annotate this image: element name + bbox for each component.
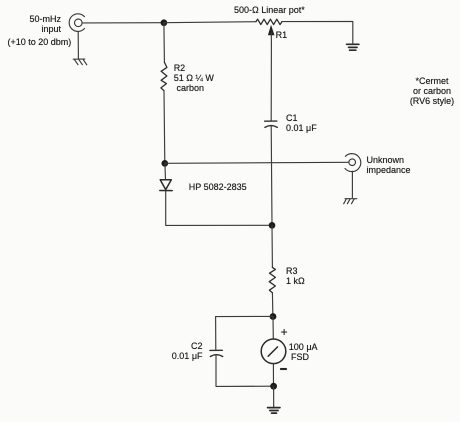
- label: R3 value: [286, 266, 305, 286]
- wire meter to node E: [272, 364, 274, 387]
- R1 wiper arrow: [268, 25, 275, 45]
- capacitor C1 (0.01 uF): [265, 121, 278, 127]
- wire C2 bottom to node E: [216, 355, 274, 386]
- capacitor C2 (0.01 uF): [210, 350, 223, 356]
- resistor R2 (51 ohm) zigzag: [161, 62, 167, 90]
- wire node B down to diode D1: [164, 163, 167, 179]
- label: HP 5082-2835: [189, 182, 247, 192]
- node A junction: [161, 19, 168, 26]
- wire node D to meter M1: [272, 316, 274, 339]
- label: (+10 to 20 dbm): [8, 37, 72, 47]
- resistor R3 (1 k) zigzag: [269, 267, 275, 292]
- ground earth (meter): [268, 408, 280, 414]
- node B junction: [161, 160, 168, 167]
- wire node B to J2 (unknown impedance line): [165, 162, 349, 163]
- wire C1 to node C: [270, 126, 273, 226]
- ground earth (R1 right): [347, 44, 359, 50]
- node E junction: [270, 383, 277, 390]
- wire R3 to node D: [271, 293, 274, 317]
- wire R1 right to corner: [282, 21, 353, 43]
- connector J1 (50-MHz input BNC jack): [69, 14, 84, 32]
- wire J2 shield to ground: [351, 171, 353, 197]
- wire J1 shield to ground: [77, 32, 79, 59]
- wire R2 to node B: [163, 91, 166, 164]
- label: 100 uA FSD: [289, 342, 318, 362]
- node C junction: [269, 222, 276, 229]
- potentiometer R1 (500 ohm linear) zigzag: [256, 19, 282, 24]
- wire input to node A: [82, 22, 164, 24]
- label: meter minus: [280, 368, 287, 370]
- label: Unknown impedance: [367, 155, 411, 175]
- meter M1 (100 uA FSD): [261, 339, 286, 364]
- label: R2 value: [174, 63, 214, 93]
- label: C2 value: [170, 341, 203, 361]
- wire D1 to node C: [166, 191, 272, 226]
- node D junction: [270, 313, 277, 320]
- wire node A down to R2: [163, 23, 166, 63]
- label: 50-mHz input: [20, 14, 61, 34]
- ground chassis (J2): [344, 199, 357, 204]
- ground chassis (input): [73, 59, 87, 65]
- wire node A to R1: [164, 22, 256, 23]
- wire node C to R3: [271, 225, 273, 267]
- label: R1: [276, 30, 288, 40]
- wire node E to ground: [273, 386, 275, 407]
- diode D1 (HP 5082-2835): [160, 180, 172, 191]
- wire node D left to C2 top: [216, 316, 273, 350]
- label: meter plus: [281, 327, 288, 337]
- label: 500-ohm Linear pot: [234, 5, 305, 15]
- wire R1 wiper down to C1: [270, 45, 272, 121]
- label: cermet note: [395, 76, 460, 106]
- connector J2 (unknown impedance BNC jack): [345, 154, 361, 172]
- label: C1 value: [286, 113, 317, 133]
